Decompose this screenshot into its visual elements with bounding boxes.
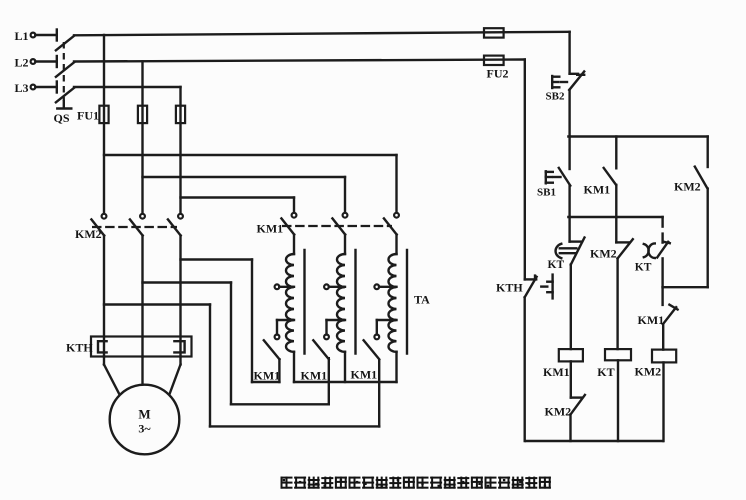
svg-text:KM2: KM2 bbox=[545, 405, 572, 419]
svg-text:FU1: FU1 bbox=[77, 109, 99, 123]
svg-text:SB2: SB2 bbox=[546, 91, 565, 103]
svg-text:L2: L2 bbox=[15, 56, 29, 70]
svg-text:KT: KT bbox=[597, 365, 614, 379]
svg-text:KM1: KM1 bbox=[543, 365, 570, 379]
svg-text:KM1: KM1 bbox=[301, 369, 328, 383]
svg-text:KTH: KTH bbox=[66, 341, 93, 355]
svg-text:KTH: KTH bbox=[496, 281, 523, 295]
svg-text:KM2: KM2 bbox=[635, 365, 662, 379]
svg-text:KM1: KM1 bbox=[254, 369, 281, 383]
svg-text:KM2: KM2 bbox=[75, 227, 102, 241]
svg-text:SB1: SB1 bbox=[537, 187, 556, 199]
svg-text:3~: 3~ bbox=[138, 422, 151, 436]
svg-text:KM1: KM1 bbox=[351, 368, 378, 382]
svg-text:TA: TA bbox=[414, 293, 430, 307]
svg-text:KM1: KM1 bbox=[638, 313, 665, 327]
svg-text:FU2: FU2 bbox=[487, 67, 509, 81]
svg-text:KM2: KM2 bbox=[590, 247, 617, 261]
svg-text:KM2: KM2 bbox=[674, 180, 701, 194]
svg-text:L3: L3 bbox=[15, 81, 29, 95]
svg-text:QS: QS bbox=[54, 111, 70, 125]
svg-text:KM1: KM1 bbox=[584, 183, 611, 197]
svg-text:KM1: KM1 bbox=[257, 222, 284, 236]
svg-text:M: M bbox=[138, 407, 150, 422]
svg-text:KT: KT bbox=[548, 259, 565, 271]
svg-text:L1: L1 bbox=[15, 29, 29, 43]
svg-text:KT: KT bbox=[635, 262, 652, 274]
